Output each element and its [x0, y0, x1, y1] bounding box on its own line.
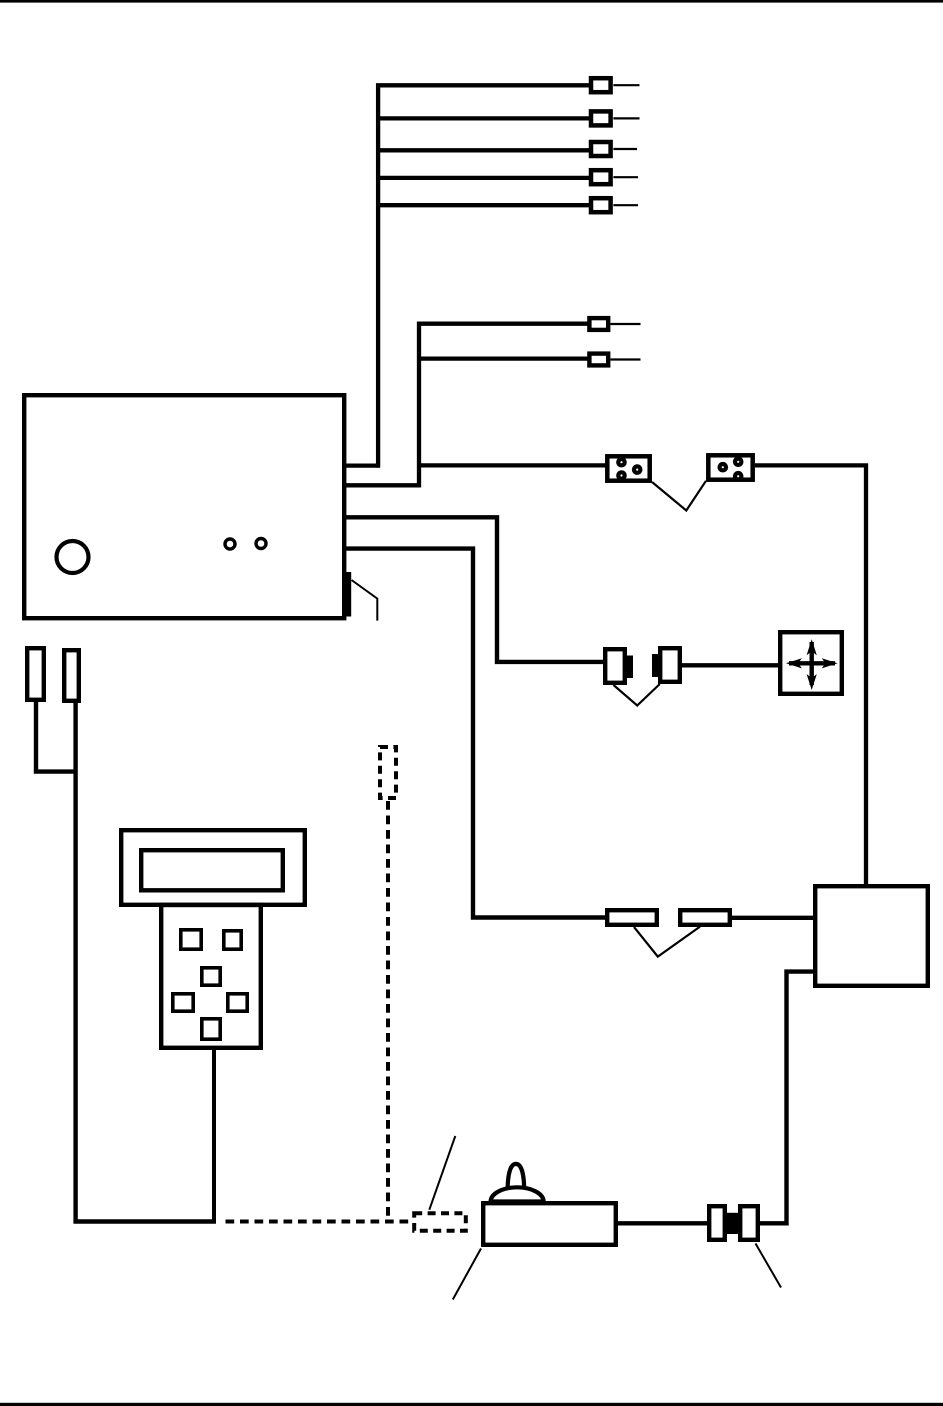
wire: sensor lead 5 — [378, 203, 591, 207]
page top rule — [0, 0, 943, 3]
wire: tap to interlock connector pair — [419, 463, 607, 467]
control unit port tab — [344, 572, 351, 617]
wire: plug pair to motion unit — [682, 663, 780, 667]
inline plug A — [605, 649, 633, 683]
wire: control unit output 3 to plug pair — [341, 517, 605, 662]
key F2 — [224, 931, 241, 949]
indicator lamp 2 — [256, 539, 266, 549]
junction box — [815, 886, 928, 986]
scanner dome — [491, 1187, 544, 1201]
dashed receptacle callout line — [429, 1136, 455, 1210]
wire: sensor lead 3 — [378, 148, 591, 152]
scanner body — [483, 1203, 616, 1245]
key F1 — [181, 930, 201, 949]
cable connector L2 — [64, 650, 79, 701]
wire: aux lead 2 — [419, 356, 589, 360]
wire: connector L2 drop to bottom run — [76, 702, 216, 1222]
wire: aux riser and aux lead 1 — [419, 324, 589, 488]
aux terminal 2 — [589, 354, 640, 366]
wire: sensor bus riser and lead 1 — [378, 85, 591, 467]
wire: sensor lead 4 — [378, 176, 591, 180]
cable connector L1 — [27, 648, 44, 700]
key down — [202, 1019, 220, 1039]
probe connector pair — [709, 1206, 758, 1240]
flat coupler F2 — [680, 910, 730, 925]
mating link A-B — [614, 684, 660, 706]
hand terminal display housing — [121, 830, 305, 905]
control unit main box — [24, 395, 344, 618]
dashed receptacle (optional) — [414, 1213, 466, 1231]
wire: control unit output 2 to aux riser — [341, 483, 421, 487]
hand terminal screen — [141, 850, 283, 890]
interlock connector P1 — [607, 456, 649, 480]
sensor terminal 4 — [591, 170, 638, 184]
wire: control unit output 4 to coupler pair — [341, 549, 607, 918]
aux terminal 1 — [589, 318, 640, 330]
probe pair callout line — [756, 1244, 782, 1288]
indicator lamp 1 — [225, 539, 235, 549]
sensor terminal 1 — [591, 78, 640, 92]
hand terminal body — [161, 905, 261, 1048]
wire: control unit output 1 to sensor bus riser — [341, 463, 380, 467]
key left — [173, 994, 193, 1011]
dashed run wire (optional) — [226, 1220, 412, 1224]
inline plug B — [652, 648, 680, 682]
wire: sensor lead 2 — [378, 116, 591, 120]
dashed riser wire (optional) — [386, 801, 390, 1222]
wire: interlock pair to junction box riser — [755, 465, 866, 886]
sensor terminal 2 — [591, 111, 640, 125]
dashed plug (optional) — [380, 747, 396, 798]
wire: connector L1 drop — [36, 701, 77, 772]
wire: hand terminal cable — [212, 1049, 216, 1222]
scanner callout line — [453, 1249, 481, 1300]
motion unit (4-way arrow box) — [780, 632, 842, 694]
wire: junction box to probe connector pair — [760, 972, 815, 1224]
wire: coupler pair to junction box — [732, 916, 815, 920]
mating link P1-P2 — [652, 481, 706, 511]
scanner knob — [508, 1164, 525, 1191]
flat coupler F1 — [607, 910, 657, 925]
page bottom rule — [0, 1403, 943, 1406]
wire: scanner to probe connector pair — [618, 1221, 709, 1225]
sensor terminal 3 — [591, 142, 637, 156]
mating link F1-F2 — [634, 927, 700, 957]
key up — [202, 968, 220, 985]
interlock connector P2 — [708, 455, 752, 479]
key right — [228, 994, 247, 1011]
sensor terminal 5 — [591, 198, 638, 212]
port callout line — [352, 580, 378, 621]
control unit knob — [57, 541, 89, 573]
